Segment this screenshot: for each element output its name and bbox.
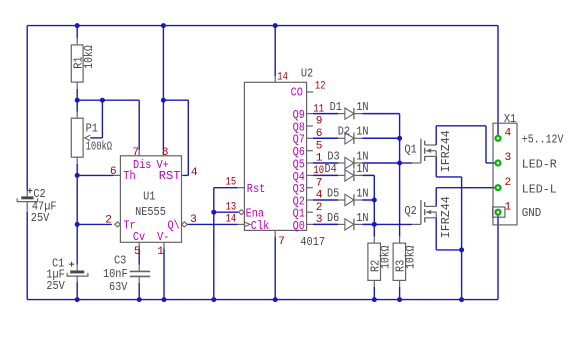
svg-text:1N: 1N	[356, 100, 368, 114]
capacitor C2 (electrolytic, supply filter)	[21, 196, 33, 199]
junction R1 top rail	[75, 23, 80, 28]
wire left supply branch upper (to C2 +)	[26, 26, 28, 190]
svg-text:1N: 1N	[356, 162, 368, 176]
svg-text:Cv: Cv	[133, 230, 145, 244]
junction node B at D2	[397, 136, 402, 141]
svg-text:IFRZ44: IFRZ44	[439, 196, 453, 238]
wire Q1 source down	[435, 156, 437, 177]
clock mark 4017 Clk	[244, 222, 250, 227]
svg-text:LED-L: LED-L	[522, 182, 557, 196]
diode D5	[307, 194, 375, 205]
wire 4017 Ena pin 13	[214, 211, 239, 213]
svg-text:U1: U1	[143, 190, 155, 204]
svg-text:CO: CO	[291, 85, 303, 99]
svg-text:X1: X1	[504, 112, 516, 126]
wire R1 bottom to node	[76, 82, 78, 89]
op IC U1 NE555 box	[120, 156, 181, 243]
svg-text:10kΩ: 10kΩ	[82, 45, 96, 69]
svg-text:6: 6	[110, 166, 117, 178]
junction Th node	[75, 173, 80, 178]
inverting diamond 555 Tr pin 2	[115, 222, 121, 227]
wire Q2 source jog right	[436, 249, 461, 251]
svg-text:C3: C3	[114, 254, 126, 268]
wire left supply branch lower (C2 - to ground rail)	[26, 202, 28, 212]
wire R3 bottom to ground	[399, 280, 401, 286]
resistor R2	[368, 243, 381, 280]
junction node A at D5	[372, 198, 377, 203]
pad X1 pin 3	[494, 159, 501, 166]
wire V+ rail drop to X1 pin 4	[497, 26, 499, 139]
svg-text:4: 4	[191, 167, 198, 179]
wire RST link to 555 RST pin 4	[183, 174, 188, 176]
svg-text:D5: D5	[327, 186, 339, 200]
svg-text:Clk: Clk	[251, 219, 269, 233]
svg-text:IFRZ44: IFRZ44	[439, 130, 453, 172]
svg-text:4: 4	[505, 128, 512, 140]
wire V+ rail to 555 V+ pin 8	[162, 26, 164, 150]
wire D4 cathode to node A	[373, 175, 375, 200]
junction Tr node	[75, 222, 80, 227]
wire P1 wiper horizontal	[90, 137, 102, 139]
wire D1 cathode to node B	[399, 114, 401, 139]
junction R1 bottom / P1 top	[75, 98, 80, 103]
svg-text:12: 12	[315, 81, 326, 93]
wire R1/P1 node horizontal	[77, 99, 102, 101]
wire LED-R to X1 pin 3	[486, 162, 498, 164]
pin stub Q6 pin 5 (U2)	[307, 150, 313, 152]
svg-text:7: 7	[316, 177, 323, 189]
wire P1 bottom to Th node	[76, 157, 78, 164]
wire Q1 gate	[400, 162, 412, 164]
svg-text:1N: 1N	[356, 211, 368, 225]
wire node A D5-D6	[373, 200, 375, 224]
pin stub Q1 pin 2 (U2)	[307, 211, 313, 213]
junction sources ground	[459, 297, 464, 302]
svg-text:5: 5	[316, 140, 323, 152]
wire Th node to 555 Th pin 6	[77, 174, 113, 176]
plus sign C1	[69, 262, 74, 267]
inverting diamond 4017 Ena pin 13	[239, 210, 245, 215]
wire C3 to ground rail	[138, 277, 140, 283]
wire Q1 drain to LED-R corner	[436, 125, 486, 127]
wire RST link horizontal top	[163, 99, 188, 101]
plus sign C2	[27, 188, 32, 193]
svg-text:+5..12V: +5..12V	[522, 132, 564, 146]
junction R2 ground	[372, 297, 377, 302]
svg-text:P1: P1	[86, 121, 98, 135]
svg-text:1N: 1N	[356, 125, 368, 139]
wire 555 V- pin 1 to ground rail	[163, 242, 165, 248]
wire 4017 Rst pin 15	[214, 187, 238, 189]
svg-text:9: 9	[316, 116, 323, 128]
diode D4	[307, 170, 375, 181]
junction V+ column top rail	[161, 23, 166, 28]
wire RST link vertical	[187, 100, 189, 175]
svg-text:13: 13	[226, 201, 237, 213]
junction 555 V- ground	[162, 297, 167, 302]
junction Rst/Ena ground	[211, 297, 216, 302]
svg-text:7: 7	[132, 147, 139, 159]
transistor Q2 (IFRZ44 n-mosfet)	[421, 200, 436, 224]
wire LED-R drop	[485, 126, 487, 163]
wire 555 Q out to 4017 Clk pin 14	[187, 223, 237, 225]
svg-text:8: 8	[162, 147, 169, 159]
wire Tr node to 555 Tr pin 2	[77, 223, 112, 225]
pin stub Q8 pin 9 (U2)	[307, 125, 313, 127]
junction C3 ground	[137, 297, 142, 302]
svg-text:D2: D2	[338, 125, 350, 139]
pin stub Q3 pin 7 (U2)	[307, 187, 313, 189]
counter IC U2 4017 box	[244, 82, 306, 230]
svg-text:14: 14	[226, 214, 237, 226]
junction Rst/Ena node	[211, 210, 216, 215]
svg-text:2: 2	[316, 202, 323, 214]
svg-text:D4: D4	[325, 162, 337, 176]
svg-text:D1: D1	[330, 100, 342, 114]
junction V+ / RST link	[161, 98, 166, 103]
svg-text:U2: U2	[301, 67, 313, 81]
svg-text:Q1: Q1	[405, 143, 417, 157]
wire C1 - to ground rail	[76, 276, 78, 282]
svg-text:4017: 4017	[300, 235, 325, 249]
diode D3	[307, 157, 400, 168]
svg-text:Rst: Rst	[247, 182, 265, 196]
wire Tr node down to C1 +	[76, 224, 78, 264]
junction node A at D6 / Q2 gate	[372, 222, 377, 227]
wire source column to ground	[461, 177, 463, 300]
svg-text:GND: GND	[522, 206, 542, 220]
svg-text:14: 14	[277, 71, 288, 83]
svg-text:1: 1	[505, 201, 512, 213]
svg-text:RST: RST	[159, 169, 181, 183]
inverting diamond 555 Q pin 3	[182, 222, 188, 227]
svg-text:63V: 63V	[109, 280, 128, 294]
wire Q2 source down	[435, 218, 437, 250]
resistor R1	[71, 45, 83, 82]
wire Q2 gate	[374, 223, 412, 225]
wire 555 Cv pin 5 to C3	[138, 242, 140, 248]
svg-text:LED-R: LED-R	[522, 158, 557, 172]
svg-text:V-: V-	[157, 230, 169, 244]
svg-text:2: 2	[505, 177, 512, 189]
svg-text:7: 7	[278, 236, 285, 248]
svg-text:25V: 25V	[46, 279, 65, 293]
junction P1 wiper node	[100, 98, 105, 103]
wire P1 top stub	[76, 100, 78, 111]
transistor Q1 (IFRZ44 n-mosfet)	[421, 139, 436, 163]
svg-text:Th: Th	[123, 169, 135, 183]
svg-text:100kΩ: 100kΩ	[86, 140, 113, 154]
diode D1	[307, 108, 400, 119]
svg-text:2: 2	[105, 215, 112, 227]
connector X1 pin 1 square	[493, 207, 505, 217]
ground rail (bottom)	[27, 299, 498, 301]
diode D6	[307, 219, 375, 230]
wire node B D2-D3	[399, 138, 401, 163]
pad X1 pin 1	[494, 209, 501, 216]
capacitor C3 (10nF)	[130, 270, 150, 272]
wire Q1 drain up	[435, 126, 437, 145]
svg-text:Q0: Q0	[293, 219, 305, 233]
wire node A down to R2	[373, 224, 375, 236]
svg-text:5: 5	[134, 246, 141, 258]
capacitor C1 (electrolytic, timing)	[70, 271, 84, 274]
wire R2 bottom to ground	[373, 280, 375, 286]
wire V+ top rail	[27, 25, 498, 27]
svg-text:10kΩ: 10kΩ	[378, 246, 392, 270]
connector X1 box	[493, 123, 517, 225]
junction 4017 ground	[273, 297, 278, 302]
wire 4017 pin 7 (bottom) to ground rail	[274, 230, 276, 236]
wire node B down to R3	[399, 163, 401, 237]
pad X1 pin 4	[494, 135, 501, 142]
svg-text:Q2: Q2	[405, 204, 417, 218]
wire Rst/Ena node vertical to ground	[213, 188, 215, 300]
wire Q2 drain up	[435, 188, 437, 207]
wire Q1 source jog right	[436, 176, 461, 178]
svg-text:NE555: NE555	[135, 205, 166, 219]
wire V+ to R1 top	[76, 26, 78, 38]
svg-text:15: 15	[226, 177, 237, 189]
svg-text:3: 3	[505, 152, 512, 164]
potentiometer P1	[71, 118, 83, 157]
svg-text:10kΩ: 10kΩ	[403, 246, 417, 270]
svg-text:1N: 1N	[356, 186, 368, 200]
junction Q1/Q2 sources	[459, 247, 464, 252]
svg-text:25V: 25V	[31, 211, 50, 225]
wire node to Dis corner	[102, 99, 139, 101]
svg-text:10nF: 10nF	[103, 267, 128, 281]
wire Th node down to Tr node	[76, 175, 78, 224]
junction 4017 supply top rail	[273, 23, 278, 28]
junction C1 ground	[75, 297, 80, 302]
pad X1 pin 2	[494, 184, 501, 191]
wiper arrow P1	[85, 135, 91, 140]
wire down to 555 Dis pin 7	[138, 100, 140, 149]
wire LED-L to X1 pin 2	[436, 187, 498, 189]
pin stub CO pin 12 (U2)	[307, 91, 314, 93]
wire P1 wiper vertical	[101, 100, 103, 138]
svg-text:1: 1	[157, 246, 164, 258]
resistor R3	[393, 243, 406, 280]
svg-text:3: 3	[190, 214, 197, 226]
svg-text:D6: D6	[327, 211, 339, 225]
wire ground rail rise to X1 pin 1	[497, 212, 499, 299]
junction R3 ground	[397, 297, 402, 302]
wire V+ rail to 4017 pin 14 (top)	[274, 26, 276, 76]
junction node B at D3 / Q1 gate	[397, 161, 402, 166]
diode D2	[307, 133, 400, 144]
svg-text:Dis: Dis	[133, 158, 151, 172]
